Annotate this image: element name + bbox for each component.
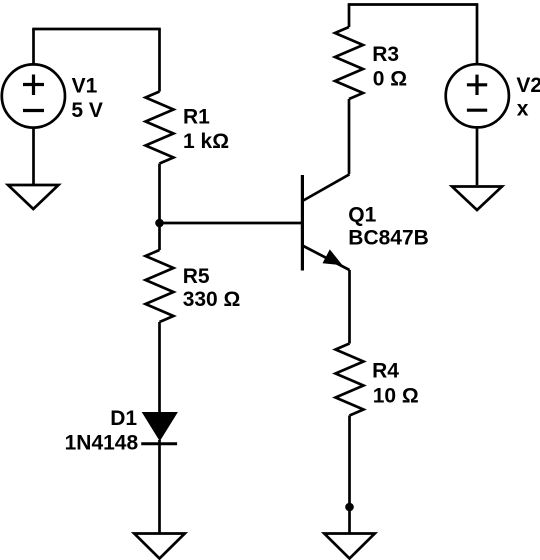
wire node A to Q1 base xyxy=(160,222,303,225)
wire Q1 emitter to R4 xyxy=(348,270,351,344)
svg-text:R4: R4 xyxy=(372,360,399,383)
voltage source V2 xyxy=(446,64,509,127)
svg-text:V1: V1 xyxy=(72,74,98,97)
wire top rail V1 to R1 xyxy=(32,28,161,31)
svg-text:330 Ω: 330 Ω xyxy=(183,288,241,311)
ground (below V1) xyxy=(8,185,59,209)
svg-text:1N4148: 1N4148 xyxy=(65,432,139,455)
wire R1 to node A xyxy=(158,164,161,224)
svg-text:R1: R1 xyxy=(183,106,210,129)
wire node A to R5 xyxy=(158,223,161,250)
svg-text:x: x xyxy=(517,98,529,121)
svg-text:1 kΩ: 1 kΩ xyxy=(183,130,229,153)
wire R1 top lead xyxy=(158,29,161,92)
svg-text:0 Ω: 0 Ω xyxy=(373,68,407,91)
resistor R3 xyxy=(335,27,363,99)
node B junction dot xyxy=(345,503,354,512)
wire V2 top lead xyxy=(476,5,479,65)
wire top rail R3 to V2 xyxy=(348,3,479,6)
svg-text:D1: D1 xyxy=(110,407,137,430)
node A junction dot xyxy=(155,219,164,228)
wire R5 to D1 xyxy=(158,322,161,413)
voltage source V1 xyxy=(2,64,65,127)
svg-text:5 V: 5 V xyxy=(71,99,103,122)
wire V1 bottom lead xyxy=(32,127,35,185)
transistor Q1 xyxy=(302,174,349,270)
svg-text:BC847B: BC847B xyxy=(348,226,429,249)
ground (below V2) xyxy=(452,187,502,211)
resistor R4 xyxy=(336,344,364,416)
resistor R1 xyxy=(146,92,174,164)
diode D1 xyxy=(141,412,178,444)
svg-text:V2: V2 xyxy=(516,74,540,97)
resistor R5 xyxy=(146,250,174,322)
wire V1 top lead xyxy=(32,29,35,65)
svg-text:R5: R5 xyxy=(183,265,210,288)
wire V2 bottom lead xyxy=(476,128,479,186)
wire R4 to ground xyxy=(348,416,351,534)
wire R3 to Q1 collector xyxy=(348,99,351,174)
ground (below D1) xyxy=(134,534,185,559)
svg-text:Q1: Q1 xyxy=(348,204,376,227)
svg-text:R3: R3 xyxy=(372,43,399,66)
wire D1 to ground xyxy=(158,440,161,534)
ground (below R4) xyxy=(324,534,375,559)
svg-text:10 Ω: 10 Ω xyxy=(373,385,419,408)
wire R3 top lead xyxy=(348,5,351,28)
